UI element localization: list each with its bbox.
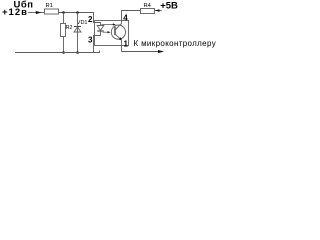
svg-text:2: 2 xyxy=(88,15,93,24)
svg-text:1: 1 xyxy=(124,40,129,49)
wire R2 top lead xyxy=(63,13,65,24)
node junction VD1/top wire xyxy=(76,11,79,14)
wire R2 bottom lead xyxy=(63,37,65,53)
svg-text:+12в: +12в xyxy=(2,7,28,18)
svg-text:R1: R1 xyxy=(46,3,53,9)
wire LED cathode pin3 to rail xyxy=(94,36,101,53)
svg-text:VD1: VD1 xyxy=(77,20,88,26)
svg-text:R2: R2 xyxy=(66,25,73,31)
bottom rail wire xyxy=(15,51,100,53)
pin 4 wire up to R4 xyxy=(122,11,141,24)
pin 1 wire down xyxy=(121,40,123,52)
wire R4 to +5В with supply arrow xyxy=(155,9,162,12)
svg-text:R4: R4 xyxy=(144,3,152,9)
optocoupler U1 box xyxy=(95,21,129,46)
resistor R1 xyxy=(45,9,59,14)
node junction R2/top wire xyxy=(62,11,65,14)
phototransistor emitter with arrow xyxy=(115,34,122,40)
diode VD1 xyxy=(74,13,81,53)
resistor R2 xyxy=(61,24,66,37)
light arrow 1 xyxy=(102,23,116,25)
output wire to microcontroller with arrow xyxy=(122,50,165,53)
svg-text:К микроконтроллеру: К микроконтроллеру xyxy=(134,39,217,48)
wire R1 to optocoupler pin2 corner xyxy=(59,13,95,23)
wire from +12в to R1 xyxy=(28,12,44,14)
svg-text:+5В: +5В xyxy=(160,1,178,12)
phototransistor collector xyxy=(115,24,121,30)
input direction arrow xyxy=(36,11,42,14)
svg-text:4: 4 xyxy=(123,13,128,22)
resistor R4 xyxy=(141,9,155,14)
phototransistor base bar xyxy=(114,27,116,35)
node junction R2/bottom rail xyxy=(62,51,65,54)
light arrow 2 xyxy=(103,31,111,33)
optocoupler LED xyxy=(95,23,104,36)
node junction VD1/bottom rail xyxy=(76,51,79,54)
svg-text:3: 3 xyxy=(88,36,93,45)
phototransistor circle xyxy=(111,25,125,39)
